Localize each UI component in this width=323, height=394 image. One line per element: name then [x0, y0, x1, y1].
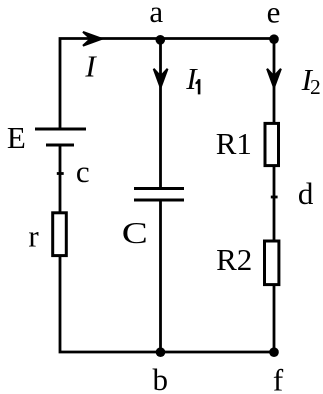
svg-text:e: e — [267, 0, 281, 29]
svg-text:b: b — [152, 362, 168, 394]
svg-text:R1: R1 — [216, 126, 252, 161]
svg-text:f: f — [273, 363, 284, 394]
svg-text:I: I — [185, 61, 198, 96]
svg-text:I: I — [84, 49, 97, 84]
svg-text:2: 2 — [310, 75, 321, 99]
svg-text:R2: R2 — [216, 242, 252, 277]
svg-text:C: C — [122, 215, 148, 250]
svg-text:d: d — [298, 176, 314, 211]
svg-text:a: a — [149, 0, 163, 29]
svg-text:r: r — [28, 218, 39, 253]
svg-text:E: E — [7, 120, 26, 155]
svg-text:c: c — [76, 154, 90, 189]
